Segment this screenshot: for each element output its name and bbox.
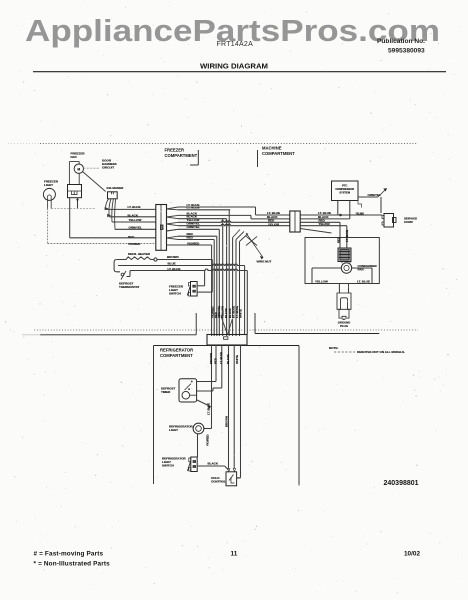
- svg-text:BLUE: BLUE: [168, 261, 176, 265]
- svg-text:RED: RED: [213, 358, 217, 364]
- svg-text:YEL/OR: YEL/OR: [319, 222, 331, 226]
- svg-text:WIRING DIAGRAM: WIRING DIAGRAM: [200, 61, 268, 70]
- svg-text:COMPARTMENT: COMPARTMENT: [160, 353, 193, 358]
- svg-text:BROWN: BROWN: [224, 416, 228, 427]
- svg-text:10/02: 10/02: [404, 551, 420, 558]
- svg-text:SWITCH: SWITCH: [169, 291, 181, 295]
- svg-text:BROWN: BROWN: [167, 255, 179, 259]
- svg-text:ICE MAKER: ICE MAKER: [107, 186, 125, 190]
- svg-text:VIO/RED: VIO/RED: [128, 242, 141, 246]
- svg-text:DEFR. HEATER: DEFR. HEATER: [128, 252, 151, 256]
- svg-text:LT. BLUE: LT. BLUE: [187, 206, 200, 210]
- svg-text:* = Non-Illustrated Parts: * = Non-Illustrated Parts: [34, 561, 111, 568]
- svg-text:LT. BLUE: LT. BLUE: [357, 279, 370, 283]
- svg-text:BLACK: BLACK: [208, 461, 219, 465]
- svg-text:CONTROL: CONTROL: [211, 479, 226, 483]
- svg-text:VIO/RED: VIO/RED: [205, 434, 209, 446]
- svg-text:11: 11: [231, 551, 238, 558]
- svg-text:YEL/BK: YEL/BK: [356, 214, 365, 216]
- svg-text:SYSTEM: SYSTEM: [339, 191, 350, 195]
- svg-text:CIRCUIT: CIRCUIT: [102, 166, 114, 170]
- svg-text:WHITE: WHITE: [239, 309, 243, 318]
- svg-text:MACHINE: MACHINE: [262, 146, 282, 151]
- svg-text:COMPARTMENT: COMPARTMENT: [165, 153, 198, 158]
- svg-text:SWITCH: SWITCH: [162, 463, 174, 467]
- svg-text:5995380093: 5995380093: [388, 48, 425, 55]
- svg-text:Publication No.: Publication No.: [377, 38, 425, 45]
- svg-text:YEL/OR: YEL/OR: [268, 222, 280, 226]
- svg-text:DENOTES NOT ON ALL MODELS.: DENOTES NOT ON ALL MODELS.: [357, 350, 405, 354]
- svg-text:REFRIGERATOR: REFRIGERATOR: [160, 348, 193, 353]
- svg-text:LT. BLUE: LT. BLUE: [219, 352, 223, 364]
- svg-text:CORD: CORD: [404, 220, 414, 224]
- svg-text:BLACK: BLACK: [226, 354, 230, 364]
- svg-text:FRT14A2A: FRT14A2A: [217, 41, 254, 48]
- svg-text:PTC: PTC: [342, 184, 347, 188]
- svg-text:RED: RED: [128, 235, 135, 239]
- svg-text:RED: RED: [336, 237, 340, 243]
- svg-text:COMPRESSOR: COMPRESSOR: [335, 187, 354, 191]
- svg-text:FREEZER: FREEZER: [165, 148, 185, 153]
- svg-text:M: M: [77, 167, 80, 171]
- svg-text:PLUG: PLUG: [340, 324, 348, 328]
- svg-text:LT. BLUE: LT. BLUE: [345, 230, 349, 242]
- svg-text:YELLOW: YELLOW: [315, 279, 328, 283]
- svg-text:TIMER: TIMER: [161, 390, 171, 394]
- svg-text:FAN: FAN: [71, 155, 77, 159]
- svg-text:LIGHT: LIGHT: [169, 428, 178, 432]
- svg-text:# = Fast-moving Parts: # = Fast-moving Parts: [34, 551, 104, 558]
- svg-text:BROWN: BROWN: [209, 353, 213, 364]
- svg-text:NOTE:: NOTE:: [329, 346, 338, 350]
- svg-text:COMPARTMENT: COMPARTMENT: [262, 151, 295, 156]
- svg-text:LIGHT: LIGHT: [44, 183, 53, 187]
- svg-text:240398801: 240398801: [384, 480, 419, 487]
- svg-text:THERMOSTAT: THERMOSTAT: [119, 285, 140, 289]
- svg-text:LT. BLUE: LT. BLUE: [128, 205, 141, 209]
- svg-text:WHITE: WHITE: [235, 355, 239, 364]
